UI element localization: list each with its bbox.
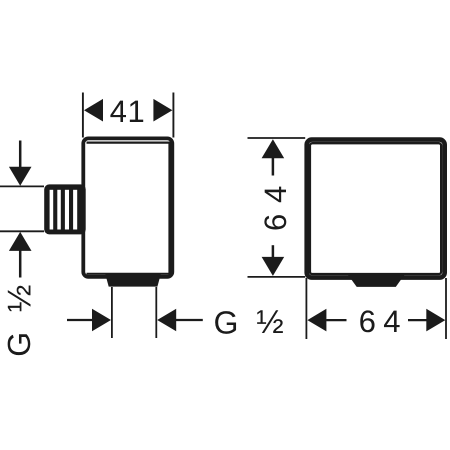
- bottom-left dim: right arrow tail: [176, 319, 203, 321]
- side view: body inner edge line (top,right,bottom): [87, 143, 170, 274]
- bottom-left dim: left arrow tail: [67, 319, 93, 321]
- left dim: upper arrow tail: [19, 141, 22, 168]
- dimension 41: left extension line: [82, 93, 84, 138]
- right vert dim 64: top extension line: [248, 137, 306, 139]
- bottom-right dim 64: label 6: [360, 310, 374, 332]
- bottom-right dim 64: right extension line: [445, 278, 447, 339]
- dimension 41: right extension line: [172, 93, 174, 138]
- front view: square inner edge line: [310, 143, 441, 274]
- bottom-right dim 64: right arrowhead: [426, 309, 445, 332]
- thread G1/2: black body: [44, 184, 85, 234]
- bottom-right dim 64: left arrow tail: [326, 319, 346, 321]
- bottom-left dim: left arrowhead: [92, 309, 111, 332]
- side view: body outer outline: [83, 138, 172, 277]
- bottom-right dim 64: left extension line: [305, 278, 307, 339]
- thread G1/2: white slot 4: [73, 190, 77, 230]
- left dim: top extension line: [0, 185, 44, 187]
- right vert dim 64: label 4 (rotated): [265, 187, 286, 203]
- left dim: up arrowhead: [9, 232, 32, 251]
- bottom-left dim: left extension line: [111, 287, 113, 338]
- right vert dim 64: label 6 (rotated): [264, 215, 286, 229]
- right vert dim 64: lower tail: [272, 245, 275, 257]
- bottom-left dim: label G: [215, 311, 236, 334]
- front view: square outer outline: [307, 140, 445, 278]
- right vert dim 64: down arrowhead: [262, 257, 285, 276]
- side view: bottom outlet spout: [105, 275, 160, 287]
- left dim: lower arrow tail: [19, 250, 22, 277]
- right vert dim 64: up arrowhead: [262, 139, 285, 158]
- left dim: down arrowhead: [9, 167, 32, 186]
- thread G1/2: white slot 1: [50, 190, 54, 230]
- thread G1/2: white slot 2: [57, 190, 61, 230]
- right vert dim 64: upper tail: [272, 158, 275, 176]
- dimension 41: label digit 4: [110, 101, 126, 122]
- bottom-left dim: right extension line: [155, 287, 157, 338]
- bottom-right dim 64: label 4: [384, 311, 400, 332]
- front view: bottom outlet bump: [348, 275, 404, 287]
- dimension 41: left arrowhead: [84, 99, 103, 122]
- bottom-right dim 64: right arrow tail: [408, 319, 427, 321]
- dimension 41: label digit 1: [130, 101, 143, 122]
- bottom-left dim: right arrowhead: [157, 309, 176, 332]
- thread G1/2: white slot 3: [65, 190, 69, 230]
- bottom-right dim 64: left arrowhead: [307, 309, 326, 332]
- left dim: bottom extension line: [0, 230, 44, 232]
- left dim: label G (rotated): [8, 334, 31, 355]
- bottom-left dim: label 1/2: [257, 310, 283, 333]
- left dim: label 1/2 (rotated): [8, 286, 31, 312]
- dimension 41: right arrowhead: [153, 99, 172, 122]
- right vert dim 64: bottom extension line: [248, 276, 306, 278]
